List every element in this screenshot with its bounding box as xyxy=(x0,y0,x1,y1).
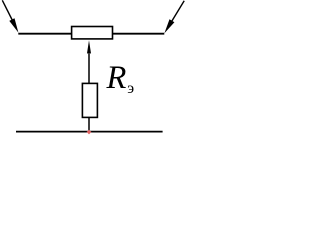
wiper arrow (head) xyxy=(87,40,91,54)
junction node (red) xyxy=(87,130,92,135)
svg-text:R: R xyxy=(106,60,127,96)
input arrow left (head) xyxy=(9,18,18,32)
wire top-left xyxy=(18,33,71,35)
potentiometer body xyxy=(72,27,113,39)
svg-text:э: э xyxy=(127,80,134,97)
bottom rail xyxy=(16,131,163,133)
input arrow left (line) xyxy=(2,0,14,24)
wiper arrow (line) xyxy=(88,47,90,83)
input arrow right (head) xyxy=(164,19,174,33)
wire top-right xyxy=(112,33,164,35)
input arrow right (line) xyxy=(171,1,184,23)
resistor R_e body xyxy=(82,83,97,117)
wire resistor to rail xyxy=(88,117,90,131)
